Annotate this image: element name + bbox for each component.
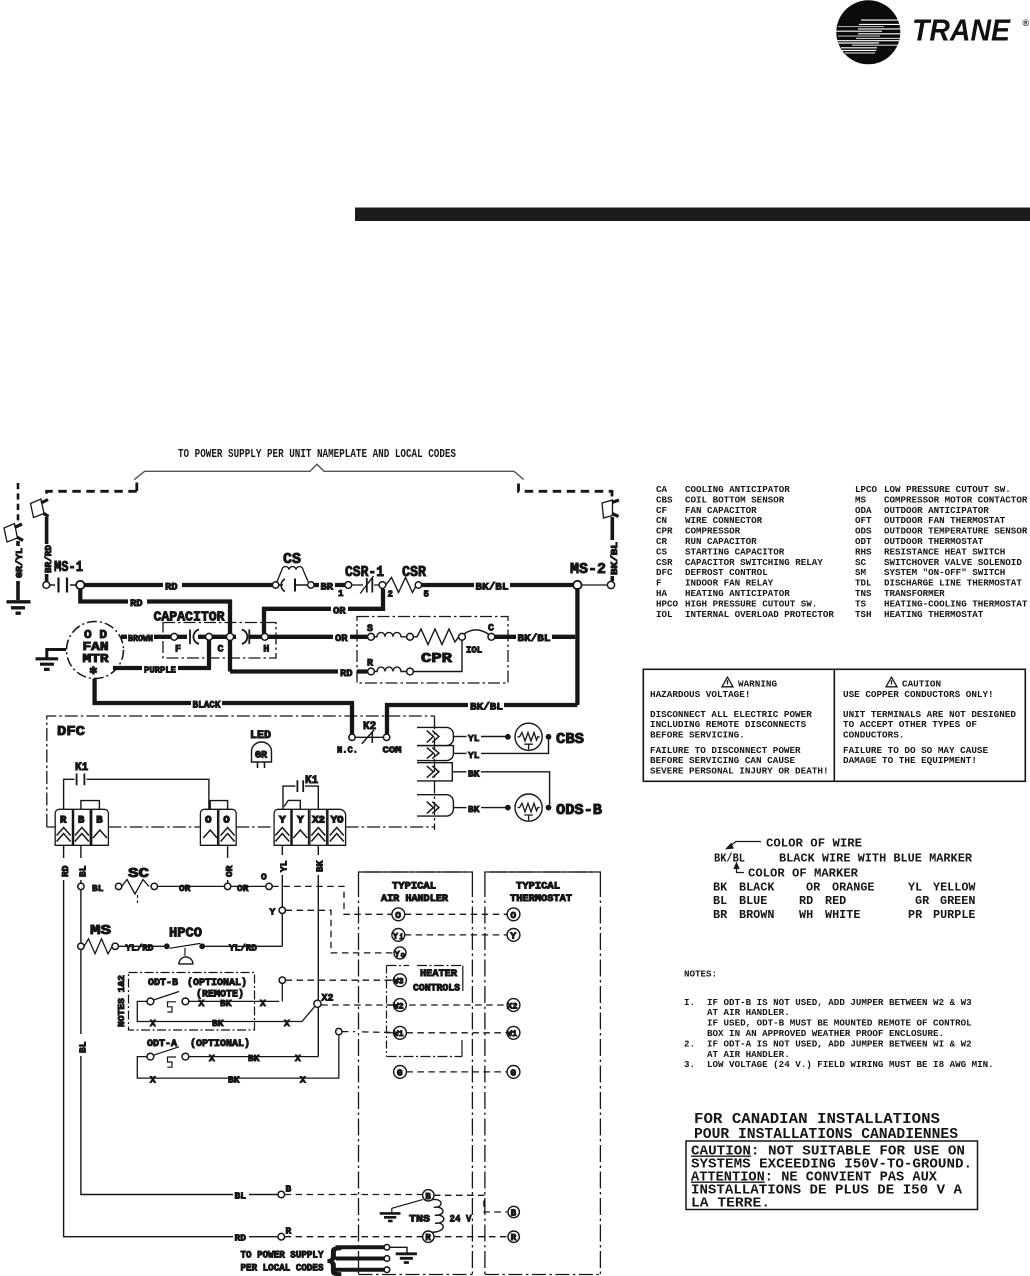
- wire: G-G dashed: [406, 1071, 507, 1073]
- label BROWN: [127, 631, 154, 644]
- svg-text:RUN CAPACITOR: RUN CAPACITOR: [685, 536, 757, 547]
- svg-text:HEATING THERMOSTAT: HEATING THERMOSTAT: [884, 609, 984, 620]
- svg-text:CR: CR: [656, 536, 668, 547]
- relay CSR coil: [386, 564, 429, 600]
- svg-text:LPCO: LPCO: [855, 484, 878, 495]
- ground (TNS): [380, 1200, 423, 1221]
- label YL vert: [276, 855, 290, 875]
- wire BLACK: [95, 679, 352, 735]
- svg-text:TO POWER SUPPLY PER UNIT NAMEP: TO POWER SUPPLY PER UNIT NAMEPLATE AND L…: [178, 447, 456, 461]
- wire PURPLE: [113, 666, 211, 670]
- svg-text:(OPTIONAL): (OPTIONAL): [187, 977, 247, 989]
- svg-text:OUTDOOR THERMOSTAT: OUTDOOR THERMOSTAT: [884, 536, 984, 547]
- svg-text:WHITE: WHITE: [825, 908, 860, 922]
- callout arrows: [727, 842, 762, 873]
- svg-text:BL: BL: [77, 1041, 88, 1053]
- svg-text:INCLUDING REMOTE DISCONNECTS: INCLUDING REMOTE DISCONNECTS: [650, 719, 807, 730]
- terminal strip O O: [200, 809, 236, 845]
- label BL vert low: [74, 1034, 88, 1056]
- contactor MS-2: [570, 561, 615, 589]
- svg-text:CF: CF: [656, 505, 667, 516]
- label RD vert: [57, 858, 71, 880]
- svg-text:NOTES 1&2: NOTES 1&2: [117, 975, 127, 1027]
- svg-text:ORANGE: ORANGE: [832, 881, 874, 895]
- svg-text:COLOR OF MARKER: COLOR OF MARKER: [748, 867, 859, 881]
- svg-text:HA: HA: [656, 588, 668, 599]
- terminal strip Y Y X2 YO: [274, 809, 346, 845]
- svg-text:USE COPPER CONDUCTORS ONLY!: USE COPPER CONDUCTORS ONLY!: [843, 689, 994, 700]
- svg-text:SWITCHOVER VALVE SOLENOID: SWITCHOVER VALVE SOLENOID: [884, 557, 1022, 568]
- wire: GR/YL to ground: [16, 541, 20, 600]
- LED GR indicator: [250, 730, 272, 768]
- wire BK/BL compressor out: [495, 635, 576, 639]
- svg-text:NOTES:: NOTES:: [684, 969, 717, 980]
- color of wire callout: [714, 837, 973, 881]
- wire: motor ground stem: [47, 650, 66, 659]
- capacitor CS with bypass: [272, 551, 314, 592]
- svg-text:2: 2: [388, 590, 393, 600]
- svg-text:OR: OR: [806, 881, 821, 895]
- label BK/BL: [474, 579, 510, 594]
- svg-text:MS-2: MS-2: [570, 561, 606, 578]
- svg-text:3.: 3.: [684, 1059, 695, 1070]
- relay contact K1 (left): [64, 762, 209, 809]
- svg-text:BROWN: BROWN: [128, 633, 153, 644]
- canadian caution box: [686, 1141, 978, 1210]
- svg-text:BLACK: BLACK: [193, 700, 222, 712]
- label OR mid: [333, 631, 350, 645]
- svg-text:OUTDOOR FAN THERMOSTAT: OUTDOOR FAN THERMOSTAT: [884, 515, 1006, 526]
- wire: W1 feed (dashed): [342, 1031, 394, 1034]
- svg-text:W3: W3: [393, 977, 403, 987]
- wire RD branch row: [80, 588, 230, 672]
- svg-text:GREEN: GREEN: [940, 894, 975, 908]
- svg-text:R: R: [367, 659, 373, 670]
- caution text: [843, 679, 1016, 767]
- svg-text:TO ACCEPT OTHER TYPES OF: TO ACCEPT OTHER TYPES OF: [843, 719, 977, 730]
- svg-text:BK: BK: [713, 881, 728, 895]
- terminal Y (thermostat): [507, 929, 520, 942]
- thermostat ODT-B contacts: [137, 977, 314, 1029]
- svg-text:BLUE: BLUE: [739, 894, 767, 908]
- svg-text:HPCO: HPCO: [656, 598, 679, 609]
- svg-text:MS: MS: [90, 923, 111, 939]
- capacitor CF terminals F-C-H: [171, 630, 269, 656]
- svg-text:CPR: CPR: [421, 651, 453, 667]
- svg-text:LED: LED: [250, 730, 271, 742]
- terminal O (air handler): [392, 908, 405, 921]
- svg-text:BEFORE SERVICING.: BEFORE SERVICING.: [650, 730, 745, 741]
- svg-text:ODS-B: ODS-B: [556, 803, 602, 819]
- terminal B (thermostat): [508, 1206, 519, 1218]
- svg-text:OR: OR: [335, 633, 348, 645]
- svg-text:N.C.: N.C.: [337, 745, 358, 756]
- svg-text:HEATING-COOLING THERMOSTAT: HEATING-COOLING THERMOSTAT: [884, 598, 1028, 609]
- svg-text:IOL: IOL: [656, 609, 673, 620]
- svg-text:BL: BL: [77, 865, 88, 877]
- svg-text:TNS: TNS: [855, 588, 872, 599]
- wire: TNS B to thermostat B (dashed): [434, 1195, 507, 1212]
- svg-text:O: O: [261, 872, 267, 883]
- wire: O1-O2 bridge: [210, 801, 227, 810]
- svg-text:RD: RD: [130, 598, 143, 610]
- svg-text:Y: Y: [270, 907, 276, 918]
- terminal W1 (thermostat): [507, 1026, 520, 1039]
- svg-text:PER LOCAL CODES: PER LOCAL CODES: [241, 1264, 324, 1275]
- svg-text:OR: OR: [179, 883, 191, 894]
- Trane logo disc: [836, 0, 901, 64]
- svg-text:SC: SC: [855, 557, 867, 568]
- svg-text:IF USED, ODT-B MUST BE MOUNTED: IF USED, ODT-B MUST BE MOUNTED REMOTE OF…: [707, 1018, 972, 1029]
- wire: Y1-Y dashed: [405, 934, 507, 936]
- terminal G (thermostat): [507, 1066, 520, 1079]
- svg-text:X: X: [295, 1053, 301, 1064]
- svg-text:BK: BK: [228, 1075, 240, 1086]
- svg-text:BL: BL: [713, 894, 727, 908]
- svg-text:CONDUCTORS.: CONDUCTORS.: [843, 730, 904, 741]
- svg-text:HAZARDOUS VOLTAGE!: HAZARDOUS VOLTAGE!: [650, 689, 750, 700]
- wire: O-O dashed: [405, 913, 507, 915]
- wire: BR/RD to MS-1: [45, 517, 49, 582]
- wire OR branch row: [264, 589, 383, 634]
- svg-text:OR: OR: [333, 606, 346, 618]
- svg-text:BK: BK: [468, 768, 480, 779]
- svg-text:GR/YL: GR/YL: [14, 548, 25, 578]
- svg-text:YELLOW: YELLOW: [933, 881, 976, 895]
- svg-text:HEATER: HEATER: [420, 969, 457, 980]
- terminal W1 (air handler): [393, 1026, 406, 1039]
- svg-text:IF ODT-A IS NOT USED, ADD JUMP: IF ODT-A IS NOT USED, ADD JUMPER BETWEEN…: [707, 1038, 972, 1049]
- svg-text:S: S: [367, 624, 373, 635]
- svg-text:X2: X2: [312, 815, 325, 827]
- air handler box borders: [359, 872, 473, 1275]
- svg-text:IOL: IOL: [466, 646, 482, 656]
- wire BK row1: [452, 768, 549, 804]
- svg-text:K1: K1: [305, 775, 319, 787]
- thermostat box borders: [485, 872, 601, 1275]
- svg-text:COIL BOTTOM SENSOR: COIL BOTTOM SENSOR: [685, 494, 785, 505]
- label PURPLE: [142, 663, 178, 676]
- svg-text:YL/RD: YL/RD: [229, 943, 257, 954]
- ground (supply): [390, 1247, 417, 1262]
- svg-text:LOW VOLTAGE (24 V.) FIELD WIRI: LOW VOLTAGE (24 V.) FIELD WIRING MUST BE…: [707, 1059, 994, 1070]
- relay MS coil row: [78, 923, 164, 954]
- svg-text:TNS: TNS: [409, 1214, 430, 1226]
- svg-text:GR: GR: [255, 751, 267, 762]
- svg-text:W2: W2: [393, 1001, 403, 1011]
- thermostat ODT-B box: [129, 973, 255, 1031]
- svg-text:X2: X2: [507, 1001, 517, 1011]
- svg-text:C: C: [218, 645, 224, 656]
- svg-text:i: i: [399, 934, 403, 942]
- svg-text:BK: BK: [468, 804, 480, 815]
- wire OR to compressor: [268, 635, 367, 639]
- motor: O.D. FAN MTR: [67, 622, 124, 679]
- wire: W1-W1 dashed: [406, 1032, 507, 1034]
- svg-text:H: H: [263, 645, 269, 656]
- terminal Y1 (air handler): [392, 929, 405, 942]
- wire YL row1: [453, 733, 506, 744]
- svg-text:PURPLE: PURPLE: [933, 908, 975, 922]
- svg-text:F: F: [175, 645, 181, 656]
- svg-text:RD: RD: [165, 582, 178, 594]
- svg-text:BK/BL: BK/BL: [476, 582, 509, 594]
- compressor CPR box: [357, 617, 508, 684]
- svg-text:R: R: [511, 1233, 517, 1243]
- svg-text:WH: WH: [799, 908, 813, 922]
- wire YL vertical: [281, 845, 283, 946]
- svg-text:ODT-B: ODT-B: [148, 978, 178, 989]
- svg-text:CAPACITOR SWITCHING RELAY: CAPACITOR SWITCHING RELAY: [685, 557, 823, 568]
- terminal O (thermostat): [507, 908, 520, 921]
- label RD to compressor: [338, 666, 357, 681]
- svg-text:Y: Y: [297, 815, 304, 827]
- wire: R dashed to TNS: [285, 1236, 423, 1238]
- svg-text:BL: BL: [92, 883, 104, 894]
- power supply brace: [134, 464, 524, 480]
- svg-text:2.: 2.: [684, 1038, 695, 1049]
- wire: X2 to W2 (dashed): [321, 1004, 507, 1006]
- svg-text:BOX IN AN APPROVED WEATHER PRO: BOX IN AN APPROVED WEATHER PROOF ENCLOSU…: [707, 1028, 944, 1039]
- svg-text:DFC: DFC: [57, 724, 86, 740]
- wire BR: [314, 583, 345, 587]
- svg-text:AT AIR HANDLER.: AT AIR HANDLER.: [707, 1049, 790, 1060]
- switch HPCO: [164, 926, 282, 964]
- svg-text:BEFORE SERVICING CAN CAUSE: BEFORE SERVICING CAN CAUSE: [650, 755, 795, 766]
- svg-text:ODT: ODT: [855, 536, 872, 547]
- svg-text:F: F: [656, 578, 662, 589]
- svg-text:B: B: [286, 1184, 292, 1195]
- label BR/RD: [41, 544, 55, 574]
- svg-text:YO: YO: [331, 815, 344, 827]
- svg-text:TYPICAL: TYPICAL: [516, 882, 560, 893]
- label BK/BL low: [468, 699, 504, 714]
- svg-text:SEVERE PERSONAL INJURY OR DEAT: SEVERE PERSONAL INJURY OR DEATH!: [650, 766, 829, 777]
- svg-text:GR: GR: [915, 894, 930, 908]
- wire BK/BL to COM: [387, 705, 577, 734]
- wire: connector column phantom: [434, 829, 436, 831]
- svg-text:RESISTANCE HEAT SWITCH: RESISTANCE HEAT SWITCH: [884, 546, 1005, 557]
- svg-text:DEFROST CONTROL: DEFROST CONTROL: [685, 567, 768, 578]
- svg-text:O: O: [510, 910, 516, 921]
- wire: TNS R to thermostat R (dashed): [434, 1236, 507, 1238]
- svg-text:RD: RD: [235, 1233, 247, 1244]
- label BR: [319, 579, 335, 594]
- svg-text:B: B: [511, 1209, 517, 1219]
- svg-text:Y: Y: [393, 931, 399, 941]
- ground (motor): [36, 659, 59, 670]
- svg-text:SC: SC: [128, 866, 150, 882]
- svg-text:OUTDOOR ANTICIPATOR: OUTDOOR ANTICIPATOR: [884, 505, 989, 516]
- svg-text:PURPLE: PURPLE: [144, 665, 176, 676]
- wire: W3 feed (dashed): [286, 979, 394, 981]
- svg-text:DISCHARGE LINE THERMOSTAT: DISCHARGE LINE THERMOSTAT: [884, 578, 1022, 589]
- svg-text:FAILURE TO DISCONNECT POWER: FAILURE TO DISCONNECT POWER: [650, 745, 801, 756]
- svg-text:TRANSFORMER: TRANSFORMER: [884, 588, 945, 599]
- wire: BK/BL flag lead: [610, 517, 614, 581]
- svg-text:TYPICAL: TYPICAL: [392, 882, 436, 893]
- relay contact K2: [337, 721, 402, 756]
- svg-text:B: B: [78, 815, 85, 827]
- svg-text:AT AIR HANDLER.: AT AIR HANDLER.: [707, 1007, 790, 1018]
- node Y: [270, 907, 286, 918]
- svg-text:W1: W1: [507, 1029, 517, 1039]
- svg-text:X: X: [209, 1053, 215, 1064]
- svg-text:K2: K2: [363, 721, 376, 733]
- svg-text:TRANE: TRANE: [912, 13, 1011, 48]
- svg-text:BK/BL: BK/BL: [609, 542, 620, 575]
- svg-text:OUTDOOR TEMPERATURE SENSOR: OUTDOOR TEMPERATURE SENSOR: [884, 526, 1028, 537]
- svg-text:Y: Y: [279, 815, 286, 827]
- svg-text:CBS: CBS: [656, 494, 673, 505]
- wire RD vertical: [64, 845, 278, 1236]
- svg-text:BLACK WIRE WITH BLUE MARKER: BLACK WIRE WITH BLUE MARKER: [779, 852, 973, 866]
- svg-text:COMPRESSOR MOTOR CONTACTOR: COMPRESSOR MOTOR CONTACTOR: [884, 494, 1028, 505]
- wire: Y to Yo (dashed): [286, 910, 394, 953]
- svg-text:X: X: [150, 1075, 156, 1086]
- svg-text:RD: RD: [799, 894, 813, 908]
- warning triangle: [722, 677, 733, 687]
- svg-text:X2: X2: [322, 994, 334, 1005]
- label BK vert: [312, 855, 326, 875]
- svg-text:IF ODT-B IS NOT USED, ADD JUMP: IF ODT-B IS NOT USED, ADD JUMPER BETWEEN…: [707, 997, 972, 1008]
- label RD branch: [128, 596, 147, 611]
- svg-text:BK: BK: [220, 998, 232, 1009]
- terminal R (thermostat): [508, 1231, 519, 1243]
- svg-text:AIR HANDLER: AIR HANDLER: [381, 894, 448, 905]
- wire BK vertical: [317, 845, 319, 1056]
- contactor MS-1: [43, 559, 85, 593]
- svg-text:INDOOR FAN RELAY: INDOOR FAN RELAY: [685, 578, 774, 589]
- svg-text:WIRE CONNECTOR: WIRE CONNECTOR: [685, 515, 763, 526]
- svg-text:YL: YL: [468, 733, 480, 744]
- svg-text:CSR: CSR: [402, 564, 426, 581]
- svg-text:OR: OR: [224, 865, 235, 877]
- svg-text:HIGH PRESSURE CUTOUT SW.: HIGH PRESSURE CUTOUT SW.: [685, 598, 817, 609]
- svg-text:X: X: [150, 1018, 156, 1029]
- svg-text:CSR: CSR: [656, 557, 673, 568]
- svg-text:R: R: [286, 1226, 292, 1237]
- svg-text:BL: BL: [235, 1191, 247, 1202]
- svg-text:CS: CS: [656, 546, 668, 557]
- svg-text:TO POWER SUPPLY: TO POWER SUPPLY: [241, 1251, 324, 1262]
- transformer TNS R terminal: [423, 1231, 434, 1243]
- svg-text:RD: RD: [60, 865, 71, 877]
- svg-text:O: O: [205, 815, 211, 827]
- wire: supply leads: [336, 1245, 390, 1273]
- svg-text:RED: RED: [825, 894, 846, 908]
- svg-text:UNIT TERMINALS ARE NOT DESIGNE: UNIT TERMINALS ARE NOT DESIGNED: [843, 709, 1016, 720]
- label BL vert: [74, 858, 88, 880]
- wire BK row2: [453, 804, 506, 815]
- svg-text:TS: TS: [855, 598, 867, 609]
- svg-text:R: R: [425, 1233, 431, 1243]
- label RD: [163, 579, 182, 594]
- svg-text:HPCO: HPCO: [169, 926, 202, 942]
- svg-text:BK/BL: BK/BL: [714, 852, 745, 866]
- svg-text:MS: MS: [855, 494, 867, 505]
- svg-text:CAUTION: CAUTION: [902, 679, 941, 690]
- svg-text:B: B: [96, 815, 103, 827]
- color code table: [713, 881, 976, 922]
- wire BROWN: [121, 635, 171, 639]
- svg-text:K1: K1: [75, 762, 89, 774]
- svg-text:CSR-1: CSR-1: [345, 564, 384, 581]
- svg-text:HEATING ANTICIPATOR: HEATING ANTICIPATOR: [685, 588, 790, 599]
- svg-text:RHS: RHS: [855, 546, 872, 557]
- svg-text:DISCONNECT ALL ELECTRIC POWER: DISCONNECT ALL ELECTRIC POWER: [650, 709, 812, 720]
- wire: B dashed to TNS: [285, 1194, 423, 1196]
- legend abbreviation table: [656, 484, 1028, 620]
- connector CN (BR/RD flag): [31, 499, 49, 518]
- notes: [684, 969, 994, 1071]
- wire: Y1-Y2 bridge: [284, 800, 300, 809]
- svg-text:WARNING: WARNING: [738, 679, 777, 690]
- svg-text:1: 1: [338, 589, 344, 599]
- transformer TNS coil: [432, 1199, 444, 1232]
- connector CN (MS-2 flag): [602, 500, 619, 518]
- terminal X2 (thermostat): [507, 999, 520, 1012]
- svg-text:BR/RD: BR/RD: [43, 545, 54, 573]
- svg-text:STARTING CAPACITOR: STARTING CAPACITOR: [685, 546, 785, 557]
- svg-text:COOLING ANTICIPATOR: COOLING ANTICIPATOR: [685, 484, 790, 495]
- svg-text:FAN CAPACITOR: FAN CAPACITOR: [685, 505, 757, 516]
- svg-text:PR: PR: [908, 908, 923, 922]
- svg-text:CS: CS: [283, 551, 301, 568]
- svg-text:W1: W1: [393, 1029, 403, 1039]
- svg-text:I.: I.: [684, 997, 695, 1008]
- svg-text:®: ®: [1023, 18, 1030, 28]
- relay contact K1 (right): [283, 775, 319, 809]
- svg-text:SYSTEM "ON-OFF" SWITCH: SYSTEM "ON-OFF" SWITCH: [884, 567, 1005, 578]
- svg-text:LOW PRESSURE CUTOUT SW.: LOW PRESSURE CUTOUT SW.: [884, 484, 1011, 495]
- svg-text:OFT: OFT: [855, 515, 872, 526]
- svg-text:DFC: DFC: [656, 567, 673, 578]
- svg-text:ODA: ODA: [855, 505, 872, 516]
- svg-text:COM: COM: [383, 745, 402, 756]
- warning caution box frame: [643, 669, 1025, 781]
- svg-text:YL: YL: [468, 750, 480, 761]
- svg-text:BLACK: BLACK: [739, 881, 775, 895]
- heater controls bracket: [387, 966, 463, 1057]
- node B bottom: [233, 1184, 292, 1202]
- svg-text:CONTROLS: CONTROLS: [413, 984, 460, 995]
- svg-text:O: O: [223, 815, 229, 827]
- svg-text:FAILURE TO DO SO MAY CAUSE: FAILURE TO DO SO MAY CAUSE: [843, 745, 988, 756]
- label OR branch: [331, 603, 348, 618]
- svg-text:COLOR OF WIRE: COLOR OF WIRE: [766, 837, 862, 851]
- wire: dashed GR/YL ground lead: [17, 483, 20, 522]
- node X2: [314, 994, 334, 1008]
- connector CN (GR/YL flag): [4, 524, 23, 543]
- svg-text:C: C: [488, 624, 494, 635]
- svg-text:RD: RD: [340, 668, 353, 680]
- terminal Y0 (air handler): [394, 947, 406, 960]
- svg-text:o: o: [401, 952, 405, 960]
- switch SC row: [78, 866, 272, 903]
- svg-text:(OPTIONAL): (OPTIONAL): [190, 1038, 250, 1050]
- svg-text:OR: OR: [237, 883, 249, 894]
- svg-text:TSH: TSH: [855, 609, 872, 620]
- terminal W2 (air handler): [393, 999, 406, 1012]
- label BK/BL vertical: [606, 540, 621, 576]
- svg-text:G: G: [397, 1067, 403, 1078]
- svg-text:BK: BK: [212, 1018, 224, 1029]
- svg-text:CPR: CPR: [656, 526, 673, 537]
- terminal G (air handler): [394, 1066, 407, 1079]
- header rule bar: [355, 208, 1030, 222]
- wire: C to purple: [207, 640, 211, 668]
